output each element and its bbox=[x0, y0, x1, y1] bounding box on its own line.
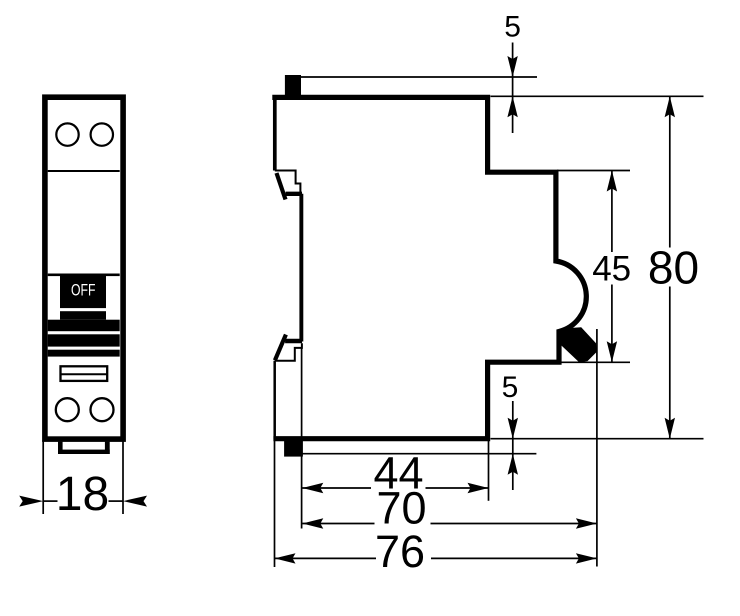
svg-text:80: 80 bbox=[648, 242, 699, 294]
svg-text:OFF: OFF bbox=[71, 282, 95, 300]
svg-text:45: 45 bbox=[592, 250, 631, 289]
svg-text:76: 76 bbox=[375, 526, 425, 577]
svg-text:5: 5 bbox=[502, 371, 519, 404]
svg-text:5: 5 bbox=[504, 11, 521, 44]
svg-text:18: 18 bbox=[56, 468, 109, 521]
